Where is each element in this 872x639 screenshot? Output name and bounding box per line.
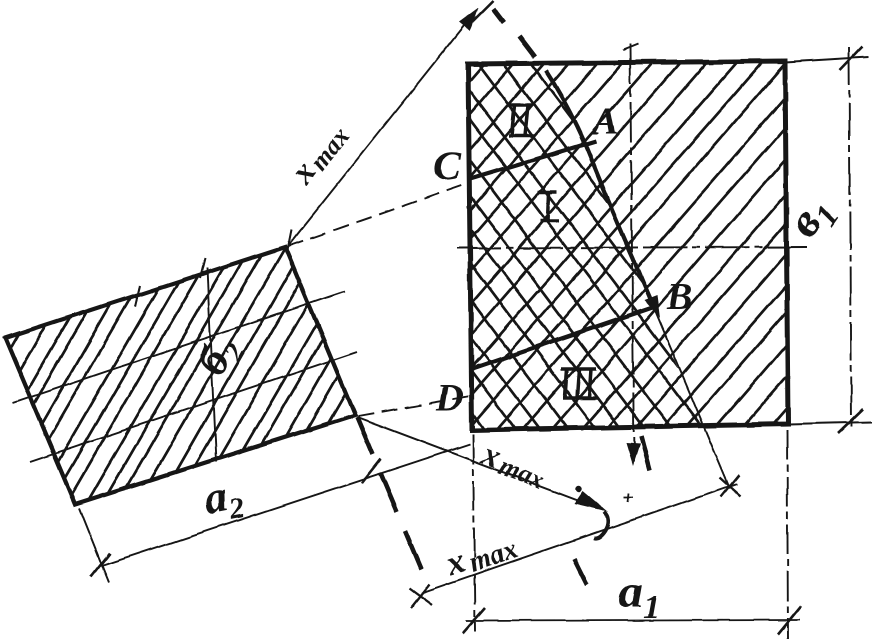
thin near-vertical line through parallelogram	[207, 268, 216, 462]
dash-dot line right corner to D	[358, 396, 470, 416]
thick line C to A	[470, 141, 596, 179]
small tick crossing top edge 1	[135, 285, 140, 307]
slash tick a1 left	[463, 608, 485, 633]
hatch of blank position 2 (parallelogram)	[0, 0, 608, 639]
slash tick a2 right	[362, 459, 381, 483]
arrowhead at B	[644, 295, 660, 318]
slash tick a2 left	[91, 553, 110, 577]
bold slash lower left	[574, 559, 587, 585]
dimension b1: vertical dash-dot line	[849, 47, 851, 428]
label region II	[507, 105, 535, 136]
dash-dot line top corner to C	[288, 184, 466, 246]
small plus tick	[624, 493, 633, 502]
dimension b1: extension line top	[785, 57, 868, 62]
edge line through B extended to lower right	[652, 303, 730, 489]
x max arrow line top	[288, 13, 474, 246]
horizontal center line of square	[457, 247, 807, 248]
X tick right end	[720, 475, 740, 497]
hook below middle arrowhead	[594, 512, 608, 538]
small dot mark	[576, 486, 582, 492]
thin axis line lower	[30, 352, 357, 462]
svg-text:C: C	[433, 144, 462, 190]
arrowhead at bottom of center line	[626, 443, 640, 466]
label v1 (Cyrillic) rotated	[776, 186, 846, 251]
x max arrow line middle	[357, 417, 603, 510]
svg-text:D: D	[435, 377, 463, 419]
slash tick at top arrow	[466, 1, 493, 28]
tick at top of vertical center line	[623, 44, 638, 50]
extension line from bottom corner of parallelogram	[79, 508, 109, 583]
thick line D to B	[472, 306, 657, 369]
dimension a1: horizontal line	[466, 620, 800, 621]
label region III	[561, 369, 598, 398]
small tick crossing top edge 2	[200, 258, 205, 278]
long dimension line x max bottom	[421, 484, 737, 593]
slash tick a1 right	[778, 606, 801, 634]
label region I	[538, 192, 559, 221]
thick arc through A to B	[546, 71, 653, 306]
dimension a1: left extension dash-dot	[473, 434, 475, 632]
arrowhead middle x max	[574, 491, 608, 512]
dimension a1: right extension dash-dot	[787, 430, 788, 639]
thick dashed phantom edge above square	[493, 9, 535, 57]
dimension line a2	[100, 444, 470, 566]
bold dashed extension from right corner of parallelogram	[357, 417, 421, 569]
label x max top	[283, 115, 355, 192]
bold slash right of center-line arrow	[641, 436, 650, 470]
label x max middle	[475, 435, 552, 496]
vertical center line of square	[630, 44, 634, 462]
blank position 1: square thick border	[468, 61, 788, 430]
slash tick b1 top	[840, 47, 862, 70]
label a2	[199, 467, 247, 530]
label x max bottom	[441, 525, 522, 586]
small tick crossing top edge 3	[287, 230, 291, 250]
dimension b1: extension line bottom	[788, 422, 872, 424]
X tick left end	[409, 584, 432, 608]
blank position 2: parallelogram thick border	[5, 247, 355, 504]
slash tick b1 bottom	[838, 409, 863, 433]
arrowhead top x max	[459, 8, 478, 31]
label b2 (Cyrillic) rotated	[186, 328, 251, 386]
svg-text:A: A	[591, 101, 618, 143]
svg-text:B: B	[666, 276, 692, 318]
thin axis line upper	[13, 291, 345, 403]
